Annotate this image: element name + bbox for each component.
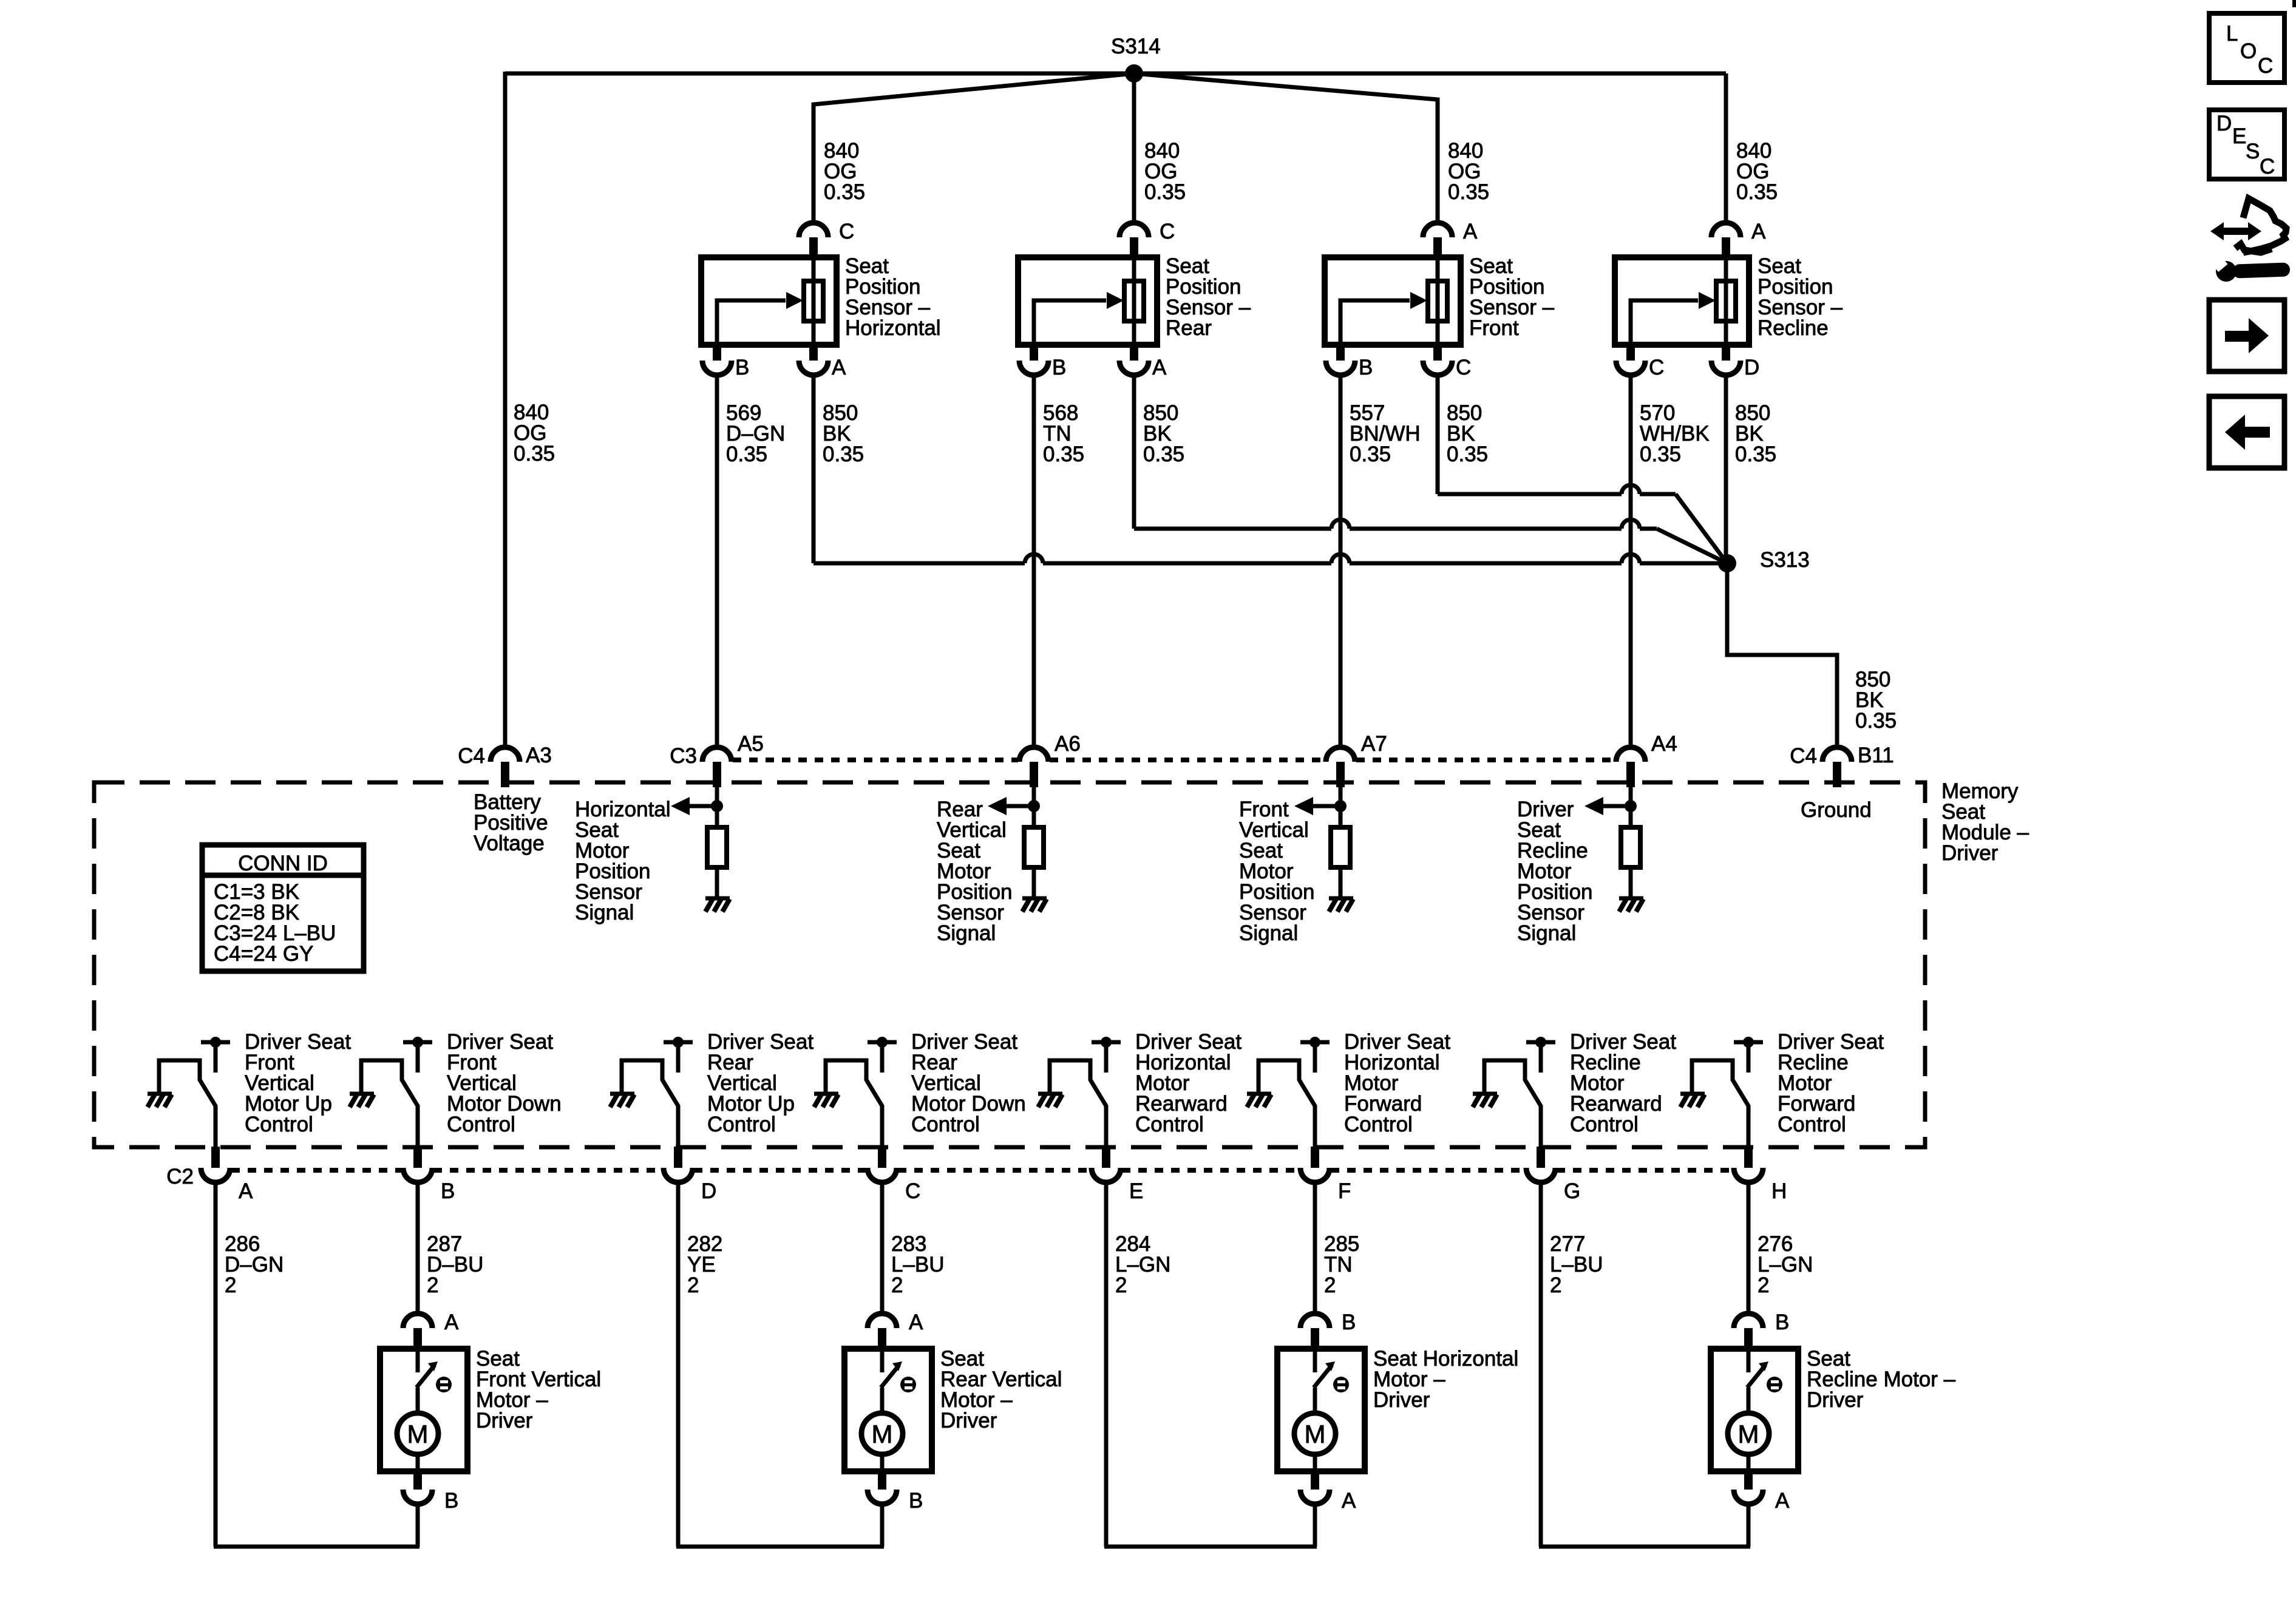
svg-text:B: B: [1775, 1310, 1789, 1334]
svg-text:A: A: [832, 356, 846, 379]
svg-text:B: B: [1359, 356, 1373, 379]
svg-text:Driver: Driver: [1941, 841, 1999, 865]
svg-text:2: 2: [1758, 1273, 1769, 1297]
svg-text:2: 2: [427, 1273, 438, 1297]
svg-text:Control: Control: [447, 1113, 515, 1136]
svg-text:Control: Control: [1135, 1113, 1204, 1136]
svg-text:A: A: [239, 1179, 253, 1203]
svg-text:A5: A5: [738, 732, 764, 756]
svg-text:C: C: [2258, 54, 2273, 78]
svg-text:G: G: [1564, 1179, 1580, 1203]
svg-text:0.35: 0.35: [824, 180, 865, 204]
svg-text:2: 2: [891, 1273, 903, 1297]
svg-text:Driver: Driver: [940, 1409, 997, 1432]
svg-text:0.35: 0.35: [1447, 442, 1488, 466]
svg-text:2: 2: [1115, 1273, 1127, 1297]
svg-text:D: D: [2216, 112, 2232, 135]
svg-text:C: C: [1649, 356, 1664, 379]
svg-text:D: D: [701, 1179, 716, 1203]
svg-text:2: 2: [687, 1273, 699, 1297]
svg-text:C: C: [2260, 155, 2275, 178]
svg-text:A: A: [1463, 220, 1478, 243]
svg-text:C: C: [1160, 220, 1175, 243]
svg-text:C: C: [839, 220, 854, 243]
svg-text:Ground: Ground: [1801, 798, 1872, 822]
svg-text:0.35: 0.35: [1144, 180, 1186, 204]
svg-text:Control: Control: [707, 1113, 776, 1136]
svg-text:E: E: [1129, 1179, 1143, 1203]
svg-text:Signal: Signal: [575, 901, 634, 924]
svg-text:C4: C4: [1790, 744, 1817, 768]
svg-text:2: 2: [1324, 1273, 1336, 1297]
svg-text:0.35: 0.35: [726, 442, 767, 466]
svg-text:0.35: 0.35: [823, 442, 864, 466]
svg-text:D: D: [1744, 356, 1759, 379]
svg-text:B11: B11: [1858, 744, 1894, 767]
svg-text:S314: S314: [1111, 35, 1161, 58]
svg-text:Control: Control: [1344, 1113, 1413, 1136]
svg-text:A: A: [1152, 356, 1167, 379]
svg-text:A: A: [1342, 1489, 1356, 1513]
svg-text:0.35: 0.35: [1736, 180, 1778, 204]
svg-text:0.35: 0.35: [514, 442, 555, 466]
svg-text:Signal: Signal: [1517, 921, 1576, 945]
svg-text:Control: Control: [1570, 1113, 1639, 1136]
svg-text:Control: Control: [245, 1113, 313, 1136]
svg-text:C4=24 GY: C4=24 GY: [214, 942, 313, 966]
svg-text:B: B: [1342, 1310, 1356, 1334]
svg-text:S313: S313: [1760, 548, 1810, 572]
svg-text:Signal: Signal: [937, 921, 996, 945]
svg-text:B: B: [735, 356, 749, 379]
svg-text:H: H: [1771, 1179, 1787, 1203]
svg-text:M: M: [407, 1420, 429, 1448]
svg-text:C: C: [905, 1179, 920, 1203]
svg-text:B: B: [909, 1489, 923, 1513]
svg-text:Driver: Driver: [1373, 1388, 1430, 1412]
svg-text:0.35: 0.35: [1043, 442, 1084, 466]
svg-text:Rear: Rear: [1166, 316, 1212, 340]
svg-text:2: 2: [225, 1273, 236, 1297]
svg-text:A: A: [1751, 220, 1766, 243]
svg-text:B: B: [444, 1489, 458, 1513]
svg-text:Control: Control: [1778, 1113, 1846, 1136]
svg-text:A: A: [1775, 1489, 1790, 1513]
svg-text:Front: Front: [1469, 316, 1519, 340]
svg-text:Voltage: Voltage: [474, 832, 545, 855]
svg-text:B: B: [441, 1179, 455, 1203]
svg-text:F: F: [1338, 1179, 1351, 1203]
svg-text:C2: C2: [166, 1165, 194, 1188]
svg-text:M: M: [872, 1420, 893, 1448]
svg-text:0.35: 0.35: [1350, 442, 1391, 466]
svg-text:C3: C3: [670, 744, 697, 768]
svg-text:M: M: [1738, 1420, 1759, 1448]
svg-text:C: C: [1456, 356, 1471, 379]
svg-text:Driver: Driver: [476, 1409, 533, 1432]
svg-text:L: L: [2226, 22, 2238, 46]
svg-text:B: B: [1052, 356, 1066, 379]
svg-text:A3: A3: [526, 744, 552, 767]
svg-text:Signal: Signal: [1239, 921, 1298, 945]
svg-text:C4: C4: [458, 744, 485, 768]
svg-text:Control: Control: [911, 1113, 980, 1136]
svg-text:Horizontal: Horizontal: [845, 316, 941, 340]
svg-text:A: A: [909, 1310, 923, 1334]
svg-text:0.35: 0.35: [1855, 709, 1897, 733]
svg-text:M: M: [1305, 1420, 1326, 1448]
svg-text:A7: A7: [1361, 732, 1387, 756]
svg-text:0.35: 0.35: [1735, 442, 1776, 466]
svg-text:A4: A4: [1651, 732, 1677, 756]
svg-text:2: 2: [1550, 1273, 1561, 1297]
svg-text:A6: A6: [1055, 732, 1081, 756]
svg-text:Recline: Recline: [1758, 316, 1829, 340]
svg-text:O: O: [2240, 39, 2257, 63]
svg-text:A: A: [444, 1310, 459, 1334]
svg-text:E: E: [2232, 124, 2246, 148]
svg-text:CONN ID: CONN ID: [238, 852, 328, 875]
svg-text:0.35: 0.35: [1143, 442, 1184, 466]
svg-text:S: S: [2246, 140, 2260, 163]
svg-text:0.35: 0.35: [1640, 442, 1681, 466]
svg-text:Driver: Driver: [1807, 1388, 1864, 1412]
svg-text:0.35: 0.35: [1448, 180, 1489, 204]
